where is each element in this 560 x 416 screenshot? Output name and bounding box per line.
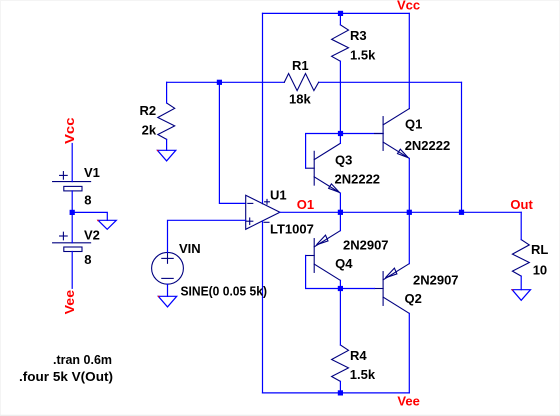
svg-text:1.5k: 1.5k	[350, 367, 376, 382]
wire Vcc top rail	[263, 12, 410, 14]
wire Q4 collector lead	[339, 280, 341, 288]
svg-text:2N2222: 2N2222	[405, 138, 451, 153]
wire Vee bottom rail	[263, 392, 410, 394]
wire VIN top to op-amp + input	[168, 220, 246, 252]
wire Q3 collector lead	[339, 134, 341, 144]
wire op-amp output Out row	[280, 211, 521, 213]
svg-text:R2: R2	[140, 103, 157, 118]
voltage source V2	[53, 232, 91, 251]
wire RL bottom lead	[520, 276, 522, 290]
wire Q1 base row	[340, 133, 383, 135]
wire left column Vcc to op-amp V+	[262, 13, 264, 203]
wire Vcc label to V1	[71, 144, 73, 182]
wire feedback drop to Out	[461, 82, 463, 212]
op-amp U1 LT1007	[246, 195, 280, 229]
voltage source V1	[53, 172, 91, 191]
svg-text:1.5k: 1.5k	[350, 48, 376, 63]
svg-text:Vcc: Vcc	[62, 118, 77, 145]
svg-text:V1: V1	[84, 165, 100, 180]
wire R4 bottom lead	[339, 381, 341, 393]
node Vcc-R3 junction	[338, 11, 343, 16]
wire Q3 diode connection	[306, 134, 341, 169]
svg-text:Q3: Q3	[335, 153, 352, 168]
svg-text:R3: R3	[350, 28, 367, 43]
svg-text:Out: Out	[510, 197, 533, 212]
node V1-V2 mid junction	[70, 210, 75, 215]
wire op-amp V- down to Vee rail	[262, 221, 264, 393]
wire R3 top lead	[339, 13, 341, 24]
svg-text:Q2: Q2	[405, 291, 422, 306]
wire Q2 collector to Vee rail	[408, 313, 410, 393]
svg-text:10: 10	[533, 262, 547, 277]
transistor Q4 2N2907	[306, 231, 341, 281]
svg-text:VIN: VIN	[179, 241, 201, 256]
svg-text:8: 8	[84, 252, 91, 267]
wire VIN bottom lead	[167, 284, 169, 296]
svg-text:2k: 2k	[142, 123, 157, 138]
node R1-inverting junction	[217, 80, 222, 85]
wire Vcc right drop to Q1 collector	[408, 13, 410, 108]
svg-text:SINE(0 0.05 5k): SINE(0 0.05 5k)	[181, 283, 268, 298]
node Q1-Q2 emitters Out junction	[407, 210, 412, 215]
svg-text:2N2222: 2N2222	[335, 172, 381, 187]
transistor Q3 2N2222	[306, 143, 341, 193]
svg-text:.four 5k V(Out): .four 5k V(Out)	[19, 369, 113, 384]
wire Q4 emitter lead from O1	[339, 212, 341, 230]
svg-text:V2: V2	[84, 228, 100, 243]
wire R3 bottom to Q3 collector node	[339, 61, 341, 133]
ground at V1-V2 midpoint	[98, 220, 116, 229]
wire Out corner to RL	[520, 212, 522, 239]
svg-text:Vcc: Vcc	[397, 0, 420, 13]
svg-text:RL: RL	[531, 242, 548, 257]
node O1 junction	[338, 210, 343, 215]
ground below RL	[512, 290, 530, 301]
svg-text:Q4: Q4	[335, 256, 353, 271]
svg-text:R1: R1	[292, 58, 309, 73]
svg-text:U1: U1	[270, 187, 287, 202]
resistor R4	[332, 345, 349, 381]
svg-text:Q1: Q1	[405, 117, 422, 132]
svg-text:.tran 0.6m: .tran 0.6m	[53, 352, 112, 367]
svg-text:Vee: Vee	[62, 290, 77, 315]
node Q3 collector junction	[338, 131, 343, 136]
wire Q3 emitter lead to O1	[339, 193, 341, 212]
svg-text:2N2907: 2N2907	[413, 273, 459, 288]
svg-text:18k: 18k	[289, 92, 311, 107]
svg-text:Vee: Vee	[397, 394, 419, 409]
wire Q1 emitter to Out row	[408, 158, 410, 212]
svg-text:LT1007: LT1007	[270, 221, 314, 236]
wire R2 top lead	[166, 82, 168, 103]
resistor R3	[332, 25, 349, 61]
wire Q4 node to R4	[339, 289, 341, 346]
resistor R2	[158, 103, 175, 139]
wire R1 feedback row	[167, 81, 285, 83]
node Vee-R4 junction	[338, 390, 343, 395]
svg-text:R4: R4	[350, 348, 367, 363]
svg-text:8: 8	[84, 192, 91, 207]
wire Q4 diode connection	[306, 256, 341, 289]
node feedback Out junction	[459, 210, 464, 215]
transistor Q2 2N2907	[375, 264, 410, 314]
transistor Q1 2N2222	[375, 109, 410, 159]
voltage source VIN	[152, 252, 184, 284]
resistor R1	[284, 74, 318, 91]
ground below R2	[157, 150, 175, 161]
wire Q2 emitter to Out row	[408, 212, 410, 263]
svg-text:2N2907: 2N2907	[343, 238, 389, 253]
resistor RL	[512, 240, 529, 277]
wire mid node to ground	[72, 212, 107, 220]
wire R2 bottom lead	[166, 139, 168, 150]
ground below VIN	[158, 296, 176, 307]
wire V2 bottom to Vee label	[71, 252, 73, 289]
wire mid node to V2 top	[71, 212, 73, 242]
wire V1 bottom to mid node	[71, 191, 73, 213]
node Q4 collector junction	[338, 286, 343, 291]
wire inverting input drop	[219, 82, 245, 203]
wire Q2 base row	[340, 288, 374, 290]
svg-text:O1: O1	[297, 197, 314, 212]
